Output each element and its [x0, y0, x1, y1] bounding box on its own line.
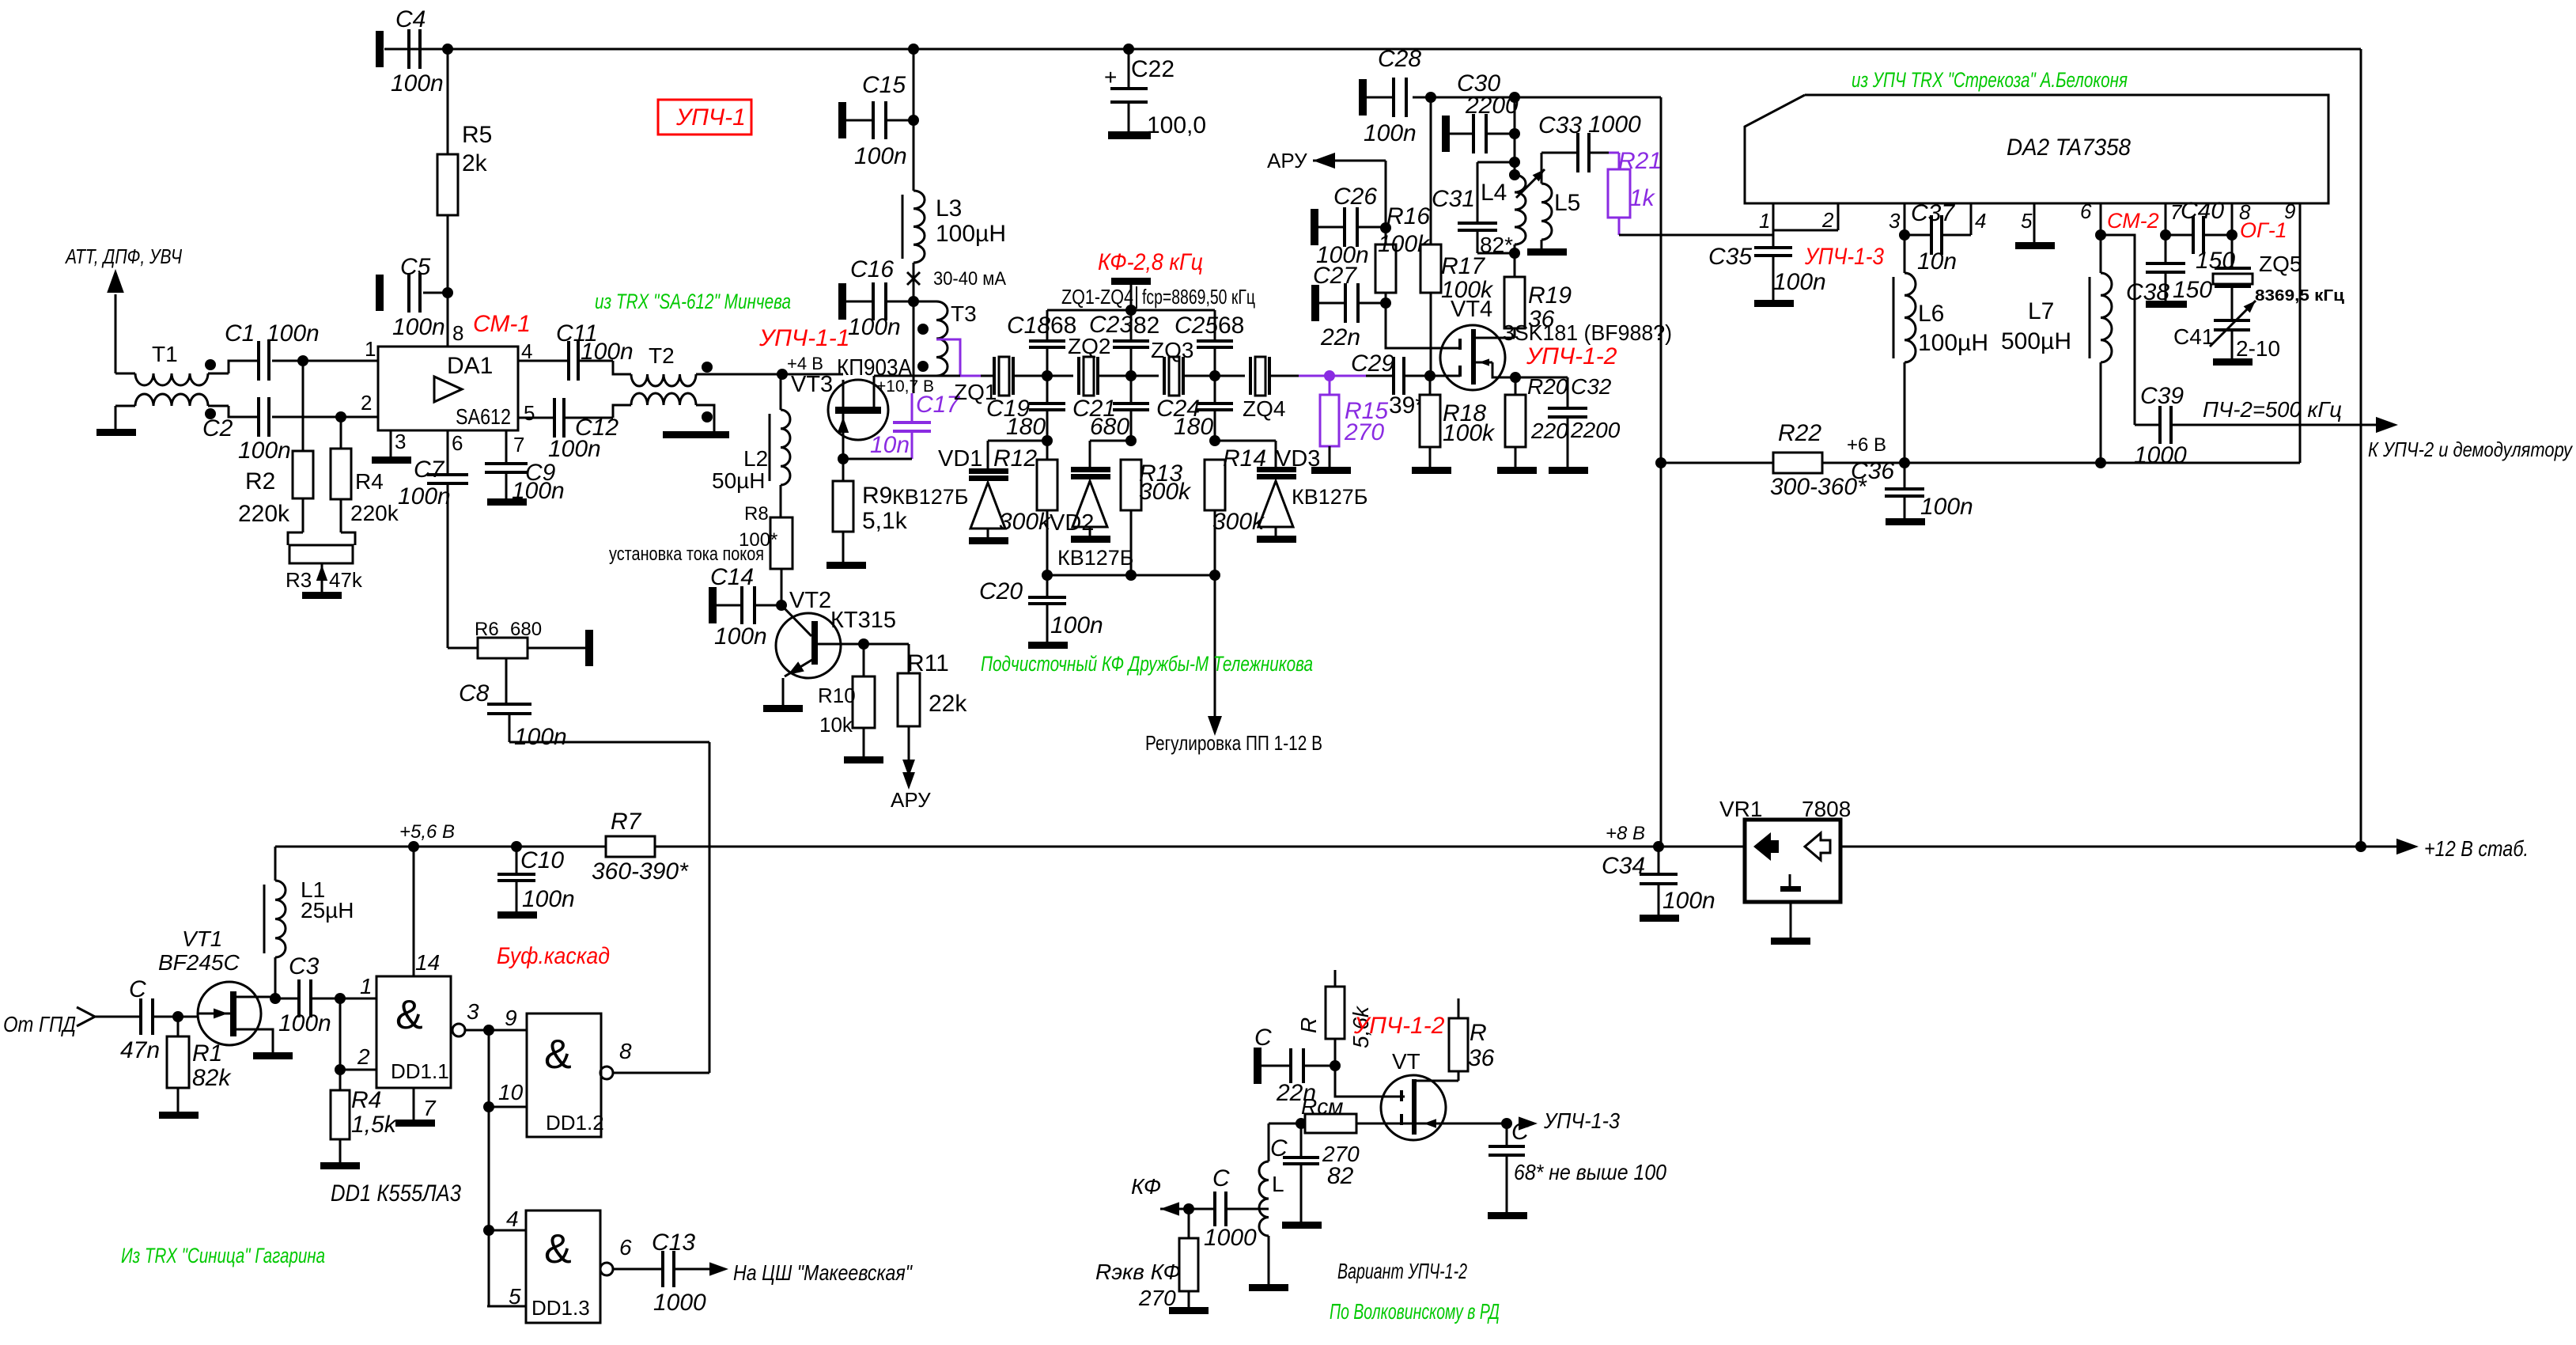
label Из TRX Синица Гагарина	[121, 1244, 325, 1267]
svg-text:82*: 82*	[1480, 233, 1513, 257]
label 8369,5 кГц	[2255, 287, 2345, 305]
svg-text:T2: T2	[649, 343, 675, 368]
svg-text:К УПЧ-2 и демодулятору: К УПЧ-2 и демодулятору	[2368, 438, 2574, 461]
svg-text:C41: C41	[2173, 324, 2214, 349]
svg-text:Вариант УПЧ-1-2: Вариант УПЧ-1-2	[1337, 1259, 1467, 1283]
svg-text:VD1: VD1	[938, 446, 982, 472]
transistor VT2 КТ315	[776, 588, 896, 705]
trimmer R6 680	[475, 619, 593, 704]
resistor R2 220k	[238, 451, 313, 527]
node C5/pin8 junction	[442, 287, 453, 298]
svg-text:360-390*: 360-390*	[592, 858, 689, 885]
node C19/VD1/R12	[1042, 435, 1053, 446]
pin 8	[2232, 200, 2251, 235]
node VT source output	[1501, 1118, 1512, 1129]
resistor R5 2k	[437, 122, 492, 215]
ground C82	[1282, 1222, 1322, 1229]
svg-text:C14: C14	[710, 564, 754, 590]
svg-text:C36: C36	[1851, 458, 1894, 484]
node pin2 junction	[335, 1064, 346, 1075]
node C30 top	[1509, 92, 1520, 103]
pin 3 ground	[372, 430, 411, 464]
ground R1	[159, 1112, 199, 1119]
label +10,7 В	[876, 377, 934, 396]
svg-text:30-40 мА: 30-40 мА	[933, 268, 1006, 290]
label Буф.каскад	[497, 943, 610, 969]
resistor R10 10k	[818, 644, 875, 756]
inductor L7 500µH	[2001, 235, 2112, 463]
wire R15 feed (violet)	[1299, 375, 1366, 377]
svg-text:VT1: VT1	[182, 926, 222, 951]
node 22n junction	[1330, 1060, 1341, 1071]
svg-text:R17: R17	[1441, 253, 1485, 279]
svg-text:СМ-1: СМ-1	[473, 311, 531, 337]
svg-text:220k: 220k	[350, 501, 399, 525]
svg-text:25µH: 25µH	[301, 898, 354, 923]
capacitor C15 100n	[838, 72, 914, 169]
wire to VT gate2	[1335, 1066, 1405, 1097]
svg-text:100n: 100n	[1662, 888, 1715, 914]
node VT3 source	[838, 453, 849, 464]
svg-text:6: 6	[619, 1235, 632, 1260]
svg-text:4: 4	[506, 1207, 519, 1231]
wire to L tank	[1269, 1123, 1301, 1125]
label Вариант УПЧ-1-2	[1337, 1259, 1467, 1283]
svg-text:ПЧ-2=500 кГц: ПЧ-2=500 кГц	[2203, 397, 2342, 422]
label КФ-2,8 кГц	[1098, 249, 1203, 275]
svg-text:100n: 100n	[398, 483, 451, 510]
inductor L6 100µH	[1893, 235, 1988, 463]
svg-text:100n: 100n	[548, 436, 601, 462]
svg-text:180: 180	[1174, 414, 1213, 440]
wire R21 to DA2 pin1	[1619, 234, 1773, 237]
svg-text:+8 В: +8 В	[1606, 823, 1645, 844]
node C36 junction	[1899, 457, 1910, 468]
arrow АРУ down	[891, 760, 931, 812]
svg-text:Регулировка ПП 1-12 В: Регулировка ПП 1-12 В	[1145, 731, 1322, 755]
capacitor C2 100n	[202, 397, 378, 464]
svg-text:C33: C33	[1538, 112, 1582, 138]
svg-text:из УПЧ TRX "Стрекоза" А.Белоко: из УПЧ TRX "Стрекоза" А.Белоконя	[1852, 68, 2128, 92]
resistor R12 300k	[993, 441, 1057, 575]
DD1.1 output pin 3	[452, 999, 489, 1036]
svg-text:100n: 100n	[522, 886, 575, 912]
label От ГПД with arrow	[3, 1007, 141, 1036]
capacitor C13 1000	[652, 1229, 714, 1316]
node C16 junction	[908, 296, 919, 307]
svg-text:DD1.2: DD1.2	[546, 1111, 604, 1135]
svg-text:ZQ5: ZQ5	[2259, 252, 2302, 276]
label АРУ with arrow	[1267, 149, 1386, 228]
wire +8V rail	[275, 846, 1745, 848]
wire pin6 to R6	[447, 483, 449, 648]
potentiometer R3 47k	[286, 498, 363, 592]
capacitor C29 39*	[1351, 350, 1460, 419]
node КФ junction	[1183, 1203, 1194, 1214]
svg-text:СМ-2: СМ-2	[2107, 209, 2159, 233]
svg-text:C28: C28	[1378, 46, 1421, 72]
svg-text:500µH: 500µH	[2001, 328, 2071, 354]
svg-text:C16: C16	[850, 256, 894, 282]
svg-text:3: 3	[395, 430, 406, 453]
wire top supply rail	[384, 48, 2361, 51]
ground C41	[2213, 358, 2253, 366]
label По Волковинскому в РД	[1330, 1299, 1500, 1324]
capacitor C11 100n	[518, 320, 634, 381]
resistor R4 220k	[331, 449, 399, 525]
svg-text:36: 36	[1468, 1045, 1495, 1071]
node C34 junction	[1653, 841, 1664, 852]
capacitor C35 100n	[1619, 235, 1826, 300]
pin 2	[1773, 203, 1838, 232]
svg-text:По Волковинскому в РД: По Волковинскому в РД	[1330, 1299, 1500, 1324]
svg-text:R10: R10	[818, 684, 856, 707]
svg-text:L5: L5	[1554, 190, 1580, 216]
svg-text:100,0: 100,0	[1147, 112, 1206, 138]
svg-text:100n: 100n	[238, 438, 291, 464]
svg-text:3: 3	[467, 999, 479, 1024]
node pin3 junction	[1899, 229, 1910, 241]
node DD1 output junction	[483, 1025, 494, 1036]
node rail/C10	[511, 841, 522, 852]
svg-text:C26: C26	[1333, 184, 1377, 210]
inductor L4	[1481, 169, 1545, 244]
svg-text:8: 8	[619, 1039, 632, 1063]
svg-text:КФ: КФ	[1131, 1174, 1161, 1199]
wire pin2	[340, 1069, 376, 1071]
label из TRX SA-612 Минчева	[595, 290, 791, 313]
resistor R17 100k	[1420, 97, 1494, 376]
capacitor C7 100n	[398, 430, 468, 510]
svg-text:4: 4	[1975, 209, 1986, 233]
wire VR1 output	[1840, 846, 2361, 848]
arrow +12 В стаб	[2361, 836, 2529, 861]
svg-text:АТТ, ДПФ, УВЧ: АТТ, ДПФ, УВЧ	[64, 244, 182, 268]
svg-text:Rсм: Rсм	[1301, 1094, 1343, 1119]
svg-text:УПЧ-1-1: УПЧ-1-1	[758, 325, 849, 351]
svg-text:5: 5	[509, 1284, 521, 1309]
wire VT1 drain	[255, 996, 275, 998]
wire C8 feedback	[509, 741, 709, 744]
svg-text:R8: R8	[744, 503, 769, 525]
capacitor C21 680	[1072, 376, 1149, 441]
capacitor C23 82	[1089, 310, 1159, 376]
svg-text:На ЦШ "Макеевская": На ЦШ "Макеевская"	[733, 1260, 913, 1285]
node pin7 junction	[2160, 229, 2171, 241]
svg-text:100n: 100n	[1773, 269, 1826, 295]
svg-text:C13: C13	[652, 1229, 695, 1256]
capacitor C26 100n	[1311, 184, 1386, 268]
label ОГ-1	[2240, 218, 2287, 242]
resistor R11 22k	[864, 644, 967, 783]
svg-text:100n: 100n	[714, 623, 767, 650]
label АТТ ДПФ УВЧ with arrow	[64, 244, 182, 373]
svg-text:&: &	[395, 992, 423, 1038]
capacitor C28 100n	[1359, 46, 1421, 146]
resistor R22 300-360*	[1661, 420, 1905, 500]
svg-text:C8: C8	[459, 680, 490, 707]
pin 9	[2284, 199, 2300, 463]
svg-text:C4: C4	[395, 6, 426, 32]
filter tuning bar	[1111, 278, 1151, 310]
svg-text:82: 82	[1327, 1163, 1354, 1189]
node pin8 junction	[2226, 229, 2237, 241]
svg-text:R21: R21	[1618, 148, 1662, 174]
label +8 В	[1606, 823, 1645, 844]
svg-text:7: 7	[423, 1096, 437, 1120]
svg-text:220: 220	[1530, 419, 1568, 443]
ground R9	[827, 562, 866, 569]
capacitor C38 150	[2126, 235, 2212, 305]
svg-text:82: 82	[1133, 313, 1159, 339]
resistor R18 100k	[1420, 376, 1496, 467]
ground R15	[1311, 467, 1351, 474]
ground R18	[1412, 467, 1451, 474]
capacitor C10 100n	[497, 847, 575, 912]
label ZQ1-ZQ4 fcp	[1061, 285, 1255, 309]
svg-text:5,1k: 5,1k	[862, 508, 908, 534]
capacitor C34 100n	[1602, 847, 1715, 915]
node C15 junction	[908, 115, 919, 126]
svg-text:C15: C15	[862, 72, 906, 98]
svg-text:+4 В: +4 В	[787, 354, 823, 373]
ground Rэкв	[1169, 1307, 1209, 1314]
svg-text:Подчисточный КФ Дружбы-М Тележ: Подчисточный КФ Дружбы-М Тележникова	[981, 652, 1313, 676]
svg-text:220k: 220k	[238, 501, 290, 527]
svg-text:R19: R19	[1528, 282, 1572, 309]
resistor Rсм 270	[1296, 1094, 1507, 1166]
svg-text:150: 150	[2173, 277, 2212, 303]
svg-text:R22: R22	[1778, 420, 1821, 446]
svg-text:DD1.1: DD1.1	[391, 1059, 449, 1083]
pin 6	[2080, 199, 2101, 235]
svg-text:КФ-2,8 кГц: КФ-2,8 кГц	[1098, 249, 1203, 275]
crystal ZQ2	[1047, 334, 1131, 396]
resistor R21 1k (violet)	[1608, 148, 1662, 235]
svg-text:BF245C: BF245C	[158, 950, 240, 975]
ground C20	[1028, 642, 1068, 649]
ground C9	[487, 498, 527, 506]
node drain/C3	[270, 993, 281, 1004]
node C26/R16	[1380, 222, 1391, 233]
node pin10 junction	[483, 1101, 494, 1112]
node R22 tap	[1655, 457, 1666, 468]
transistor VT (variant)	[1381, 1049, 1458, 1140]
svg-text:C22: C22	[1131, 56, 1175, 82]
svg-text:R11: R11	[907, 650, 949, 676]
wire filter top rail	[1047, 309, 1215, 312]
ground VT1 source	[253, 1052, 293, 1059]
svg-text:22k: 22k	[929, 691, 967, 717]
svg-text:R: R	[1470, 1020, 1487, 1046]
crystal ZQ5	[2213, 235, 2302, 320]
resistor R14 300k	[1205, 445, 1266, 575]
capacitor C5	[376, 254, 448, 340]
ground VR1	[1771, 938, 1810, 945]
varicap VD2 КВ127Б	[1050, 441, 1134, 570]
node bottom rail mid	[1125, 570, 1137, 581]
svg-text:270: 270	[1344, 419, 1384, 445]
svg-text:1: 1	[360, 974, 373, 998]
svg-text:R12: R12	[993, 445, 1037, 472]
svg-text:2: 2	[361, 391, 372, 415]
svg-text:3SK181 (BF988?): 3SK181 (BF988?)	[1503, 320, 1672, 345]
svg-text:6: 6	[2080, 199, 2092, 223]
node pin6 bottom	[2095, 457, 2106, 468]
svg-text:fcp=8869,50 кГц: fcp=8869,50 кГц	[1142, 285, 1255, 309]
arrow На ЦШ Макеевская	[709, 1260, 913, 1285]
svg-text:300k: 300k	[1139, 479, 1192, 505]
wire L4 column top	[1514, 97, 1516, 175]
svg-text:68* не выше 100: 68* не выше 100	[1514, 1160, 1666, 1184]
node C28/R17 top	[1425, 92, 1436, 103]
wire L3 column	[913, 49, 915, 191]
svg-text:100n: 100n	[854, 143, 907, 169]
capacitor C 68*	[1488, 1119, 1666, 1212]
node C21/VD2/R13	[1125, 435, 1137, 446]
NAND gate DD1.2	[489, 1006, 604, 1137]
capacitor C32 2200	[1515, 374, 1621, 467]
svg-text:7808: 7808	[1802, 797, 1851, 821]
capacitor C20 100n	[979, 575, 1103, 642]
node VT4 source	[1510, 372, 1521, 383]
svg-text:100k: 100k	[1443, 420, 1496, 446]
node C14/VT2 base junction	[776, 600, 787, 611]
svg-text:R1: R1	[192, 1040, 222, 1067]
svg-text:УПЧ-1-2: УПЧ-1-2	[1526, 343, 1617, 369]
pin 7	[2166, 200, 2183, 235]
capacitor C17 10n (violet)	[843, 392, 960, 459]
svg-text:10k: 10k	[819, 713, 853, 737]
capacitor C25 68	[1175, 310, 1244, 376]
node C27/R16	[1380, 297, 1391, 309]
ground C36	[1886, 518, 1925, 525]
capacitor C37 10n	[1905, 200, 1971, 275]
svg-text:VT3: VT3	[791, 372, 833, 397]
capacitor C19 180	[986, 376, 1065, 441]
svg-text:10n: 10n	[1917, 248, 1957, 275]
label УПЧ-1-3	[1804, 244, 1884, 270]
label +4 В	[787, 354, 823, 373]
svg-text:DA2 TA7358: DA2 TA7358	[2007, 134, 2131, 161]
wire R4 column	[340, 417, 342, 449]
svg-text:10n: 10n	[870, 432, 910, 458]
arrow УПЧ-1-3 (variant)	[1519, 1108, 1620, 1133]
svg-text:C40: C40	[2181, 198, 2224, 224]
node bottom rail right	[1209, 570, 1220, 581]
wire filter bottom rail	[1047, 574, 1215, 577]
svg-text:ZQ4: ZQ4	[1243, 396, 1285, 421]
svg-text:C2: C2	[202, 415, 233, 441]
pin 7 ground	[395, 1088, 435, 1127]
transistor VT4 3SK181	[1440, 297, 1515, 390]
svg-text:VR1: VR1	[1719, 797, 1762, 821]
ground T2	[663, 431, 729, 438]
label УПЧ-1-2 (variant)	[1353, 1013, 1445, 1039]
ground pin5	[2033, 235, 2036, 242]
label 3SK181 (BF988?)	[1503, 320, 1672, 345]
label УПЧ-1-2	[1526, 343, 1617, 369]
svg-text:DD1 К555ЛА3: DD1 К555ЛА3	[331, 1180, 461, 1207]
transistor VT3 КП903А	[791, 372, 888, 459]
svg-text:ZQ3: ZQ3	[1151, 338, 1193, 362]
svg-text:+: +	[1104, 65, 1117, 89]
svg-text:R9: R9	[862, 483, 892, 509]
svg-text:Rэкв КФ: Rэкв КФ	[1095, 1260, 1181, 1284]
resistor R4 1,5k	[331, 1070, 398, 1162]
svg-text:УПЧ-1: УПЧ-1	[675, 104, 746, 131]
resistor R19 36	[1504, 244, 1572, 338]
svg-text:C39: C39	[2140, 383, 2184, 409]
capacitor C8 100n	[459, 680, 567, 750]
svg-text:АРУ: АРУ	[891, 788, 931, 812]
svg-text:C37: C37	[1911, 200, 1955, 226]
ground C68	[1488, 1212, 1527, 1219]
current mark X 30-40 мА	[907, 263, 1006, 301]
inductor L (variant)	[1259, 1161, 1284, 1284]
svg-text:АРУ: АРУ	[1267, 149, 1307, 172]
ground C10	[497, 911, 537, 919]
arrow Регулировка ПП	[1145, 575, 1322, 755]
svg-text:R7: R7	[611, 809, 642, 835]
svg-text:ОГ-1: ОГ-1	[2240, 218, 2287, 242]
svg-text:100n: 100n	[1920, 494, 1973, 520]
svg-text:C10: C10	[520, 847, 564, 873]
ground R3	[302, 592, 342, 599]
node after ZQ1	[1042, 370, 1053, 381]
ground R20	[1497, 467, 1537, 474]
svg-text:C29: C29	[1351, 350, 1394, 377]
svg-text:VT2: VT2	[789, 588, 831, 613]
svg-text:C27: C27	[1313, 263, 1357, 289]
DD1.3 output pin 6	[600, 1235, 663, 1275]
inductor L5	[1541, 153, 1580, 248]
capacitor C18 68	[1007, 310, 1076, 376]
svg-text:82k: 82k	[192, 1065, 232, 1091]
svg-text:из TRX "SA-612" Минчева: из TRX "SA-612" Минчева	[595, 290, 791, 313]
svg-text:680: 680	[1090, 414, 1129, 440]
svg-text:180: 180	[1006, 414, 1046, 440]
svg-text:&: &	[544, 1226, 572, 1272]
svg-text:100n: 100n	[514, 724, 567, 750]
wire DD out vertical	[488, 1030, 490, 1306]
svg-text:C20: C20	[979, 578, 1023, 604]
pin 1	[1759, 203, 1773, 248]
label СМ-1	[473, 311, 531, 337]
svg-text:L2: L2	[743, 446, 768, 471]
svg-text:R16: R16	[1386, 203, 1430, 229]
node after ZQ2	[1125, 370, 1137, 381]
node C3/DD1 junction	[335, 993, 346, 1004]
svg-text:47k: 47k	[329, 568, 363, 592]
capacitor C12 100n	[518, 398, 618, 462]
svg-text:R4: R4	[351, 1087, 381, 1113]
label +6 В	[1847, 434, 1886, 456]
svg-text:+5,6 В: +5,6 В	[399, 821, 455, 843]
capacitor C33 1000	[1538, 112, 1641, 172]
ground C38	[2146, 301, 2187, 308]
wire right loop vertical	[1660, 97, 1662, 847]
node R15 junction (violet)	[1324, 370, 1335, 381]
svg-text:C32: C32	[1571, 374, 1612, 399]
wire C28-C30 top	[1413, 97, 1661, 99]
resistor R 5,6k (variant)	[1296, 970, 1373, 1066]
svg-text:R6: R6	[475, 619, 499, 640]
svg-text:1000: 1000	[1588, 112, 1641, 138]
wire to VT4 gate2	[1386, 303, 1460, 348]
svg-text:ZQ2: ZQ2	[1068, 334, 1110, 358]
varicap C41 2-10	[2173, 301, 2280, 361]
